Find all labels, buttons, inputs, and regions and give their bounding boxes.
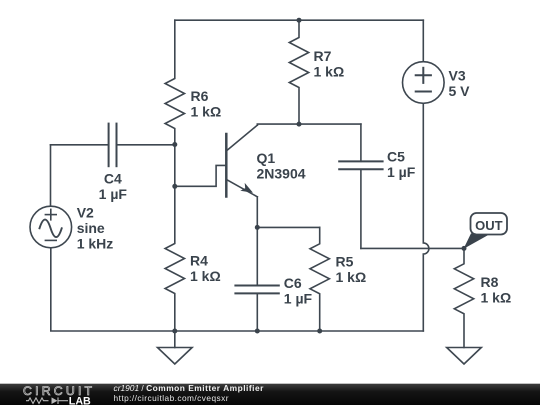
svg-text:R5: R5: [336, 254, 354, 270]
svg-text:R8: R8: [481, 274, 499, 290]
node junction R4 bottom / ground: [172, 329, 177, 334]
node junction base tap: [172, 184, 177, 189]
node junction R7 top: [297, 18, 302, 23]
wire bottom ground rail: [175, 330, 423, 332]
ground (left): [158, 331, 193, 364]
svg-text:1 µF: 1 µF: [99, 186, 128, 202]
svg-text:1 kΩ: 1 kΩ: [481, 290, 512, 306]
svg-text:1 µF: 1 µF: [387, 164, 416, 180]
voltage source V3: [403, 20, 445, 103]
svg-text:1 kΩ: 1 kΩ: [336, 269, 367, 285]
svg-text:V3: V3: [449, 67, 466, 83]
svg-text:R6: R6: [191, 88, 209, 104]
resistor R8: [454, 248, 473, 347]
ground (right): [447, 348, 482, 365]
svg-text:LAB: LAB: [69, 396, 91, 405]
wire top supply rail: [175, 19, 423, 21]
wire emitter down to node: [256, 197, 258, 228]
capacitor C6: [235, 227, 278, 331]
node junction R5 bottom: [317, 329, 322, 334]
svg-text:C5: C5: [387, 149, 405, 165]
node junction C4/R6/base column: [172, 142, 177, 147]
svg-text:5 V: 5 V: [449, 83, 471, 99]
node flag OUT: [464, 213, 508, 249]
wire V3 minus down with hop over OUT wire: [423, 103, 429, 331]
wire emitter node to R5: [257, 226, 319, 228]
resistor R4: [165, 186, 184, 331]
wire C5 bottom to OUT node: [361, 247, 464, 249]
capacitor C5: [339, 124, 382, 248]
node junction C6 bottom: [255, 329, 260, 334]
svg-text:1 µF: 1 µF: [284, 291, 313, 307]
svg-text:R4: R4: [190, 253, 208, 269]
resistor R5: [310, 227, 329, 331]
capacitor C4: [51, 124, 175, 167]
svg-text:2N3904: 2N3904: [257, 166, 306, 182]
svg-text:R7: R7: [314, 48, 332, 64]
svg-text:OUT: OUT: [475, 218, 503, 233]
svg-text:C4: C4: [104, 170, 122, 186]
svg-text:Q1: Q1: [257, 150, 276, 166]
wire R6 bottom to base-node column: [174, 145, 176, 187]
voltage source V2 (sine): [30, 206, 72, 248]
footer url line: [114, 393, 229, 403]
node junction OUT: [462, 246, 467, 251]
footer title line: [114, 383, 264, 393]
node junction emitter: [255, 225, 260, 230]
wire V2 minus to ground rail: [51, 248, 175, 331]
svg-text:1 kΩ: 1 kΩ: [190, 268, 221, 284]
svg-text:C6: C6: [284, 275, 302, 291]
CircuitLab logo squiggle resistor+diode: [26, 397, 68, 404]
node junction collector/R7: [297, 122, 302, 127]
wire C4 left down to V2: [50, 145, 52, 206]
svg-text:sine: sine: [77, 220, 105, 236]
wire collector to R7/C5 node: [257, 124, 361, 125]
wire base tap to Q1 base: [175, 165, 225, 186]
resistor R6: [165, 20, 184, 144]
svg-text:1 kΩ: 1 kΩ: [314, 64, 345, 80]
svg-text:1 kΩ: 1 kΩ: [191, 104, 222, 120]
svg-text:V2: V2: [77, 205, 94, 221]
svg-text:1 kHz: 1 kHz: [77, 236, 114, 252]
resistor R7: [289, 20, 308, 124]
transistor Q1 2N3904: [226, 125, 257, 197]
